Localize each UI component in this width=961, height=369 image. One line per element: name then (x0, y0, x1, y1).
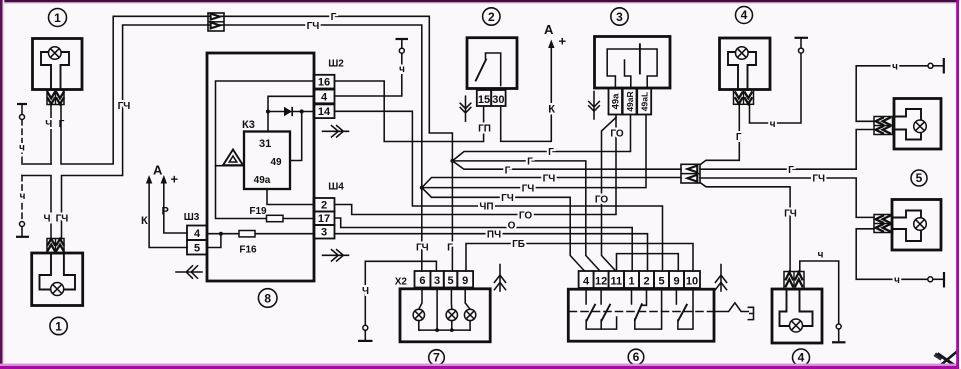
switch contact group right (676, 288, 693, 329)
svg-text:1: 1 (54, 11, 61, 25)
svg-text:Ч: Ч (45, 119, 52, 130)
svg-text:2: 2 (643, 276, 649, 288)
svg-text:Г: Г (736, 132, 742, 143)
wire Ch rear-left lamp to body point (856, 66, 928, 122)
switch contact group middle (632, 288, 662, 329)
svg-text:49а: 49а (611, 93, 622, 110)
circled 1 (bottom) (50, 317, 67, 334)
svg-text:Ч: Ч (362, 286, 369, 297)
svg-text:5: 5 (658, 276, 664, 288)
circled 5 (911, 170, 927, 186)
pin 30 (491, 90, 505, 106)
lamp 1 front-right turn signal (bottom) (32, 253, 83, 306)
terminal Ч near Sh2-4 (335, 39, 409, 96)
wire X2-6 feed (down from fork) (421, 188, 423, 271)
wire Sh3-4/5 through F16 to Sh4-3 (207, 234, 314, 248)
pin 49aR (623, 89, 637, 115)
node rail junctions (435, 328, 439, 332)
svg-text:17: 17 (318, 213, 330, 225)
cluster box 7 (400, 289, 490, 342)
svg-text:А: А (153, 163, 163, 178)
svg-text:ГЧ: ГЧ (56, 214, 69, 225)
terminal Ч (top right) (795, 38, 809, 53)
wire GCh middle branch to hazard switch 49aL (422, 115, 646, 188)
rear lamp 5 top (894, 99, 941, 150)
svg-text:ч: ч (892, 62, 898, 73)
body point terminal (top) (928, 58, 944, 74)
svg-text:2: 2 (321, 200, 327, 212)
svg-text:11: 11 (610, 276, 622, 288)
arrow out right (Sh2) (323, 126, 349, 137)
node fork GCh (420, 186, 424, 190)
svg-text:ч: ч (20, 191, 26, 202)
connector X of lamp 1 top (47, 90, 64, 105)
svg-text:Ч: Ч (43, 214, 50, 225)
ignition switch block 2 (467, 38, 517, 89)
svg-text:9: 9 (462, 275, 468, 287)
wire lamp1top Г up to line Г (61, 16, 452, 164)
wire K3-49a to Sh4-2 (267, 189, 314, 205)
svg-text:5: 5 (194, 242, 200, 254)
svg-text:49: 49 (270, 157, 282, 168)
body point terminal (lamp 4 bottom) (832, 324, 846, 342)
circled 4 (top) (736, 7, 753, 24)
wire G bottom branch to connector (452, 161, 681, 169)
switch block 6 box (568, 289, 714, 341)
switch contact group left (586, 288, 617, 329)
connector X of lamp 5 bottom (874, 215, 893, 233)
mounting block 8 (207, 53, 314, 281)
svg-text:ГП: ГП (478, 123, 491, 134)
svg-text:ч: ч (894, 275, 900, 286)
circled 4 (bottom) (793, 349, 810, 366)
ground terminal bottom-left (16, 176, 29, 237)
svg-text:Г: Г (505, 165, 511, 176)
ground terminal top-left (17, 104, 27, 164)
svg-text:4: 4 (194, 228, 201, 240)
cluster lamp common rail (419, 288, 470, 331)
pin 49a (609, 89, 623, 115)
svg-text:4: 4 (583, 276, 590, 288)
svg-text:ЧП: ЧП (479, 202, 493, 213)
svg-text:49аR: 49аR (625, 91, 635, 111)
wire Sh3-4 to P arrow (164, 183, 187, 233)
connector X of lamp 1 bottom (47, 239, 64, 254)
svg-text:Г: Г (788, 165, 794, 176)
svg-text:8: 8 (264, 291, 271, 305)
wire ground X2-3 (365, 261, 436, 325)
svg-text:Ш3: Ш3 (184, 212, 200, 223)
svg-text:А: А (544, 22, 554, 37)
node fork G (450, 159, 454, 163)
switch mechanical dashed link (570, 311, 714, 313)
cluster lamp right (464, 288, 475, 331)
svg-text:5: 5 (916, 171, 923, 185)
svg-text:Ш2: Ш2 (328, 59, 344, 70)
svg-text:4: 4 (741, 8, 748, 22)
svg-text:Г: Г (331, 12, 337, 23)
svg-text:К: К (141, 215, 148, 227)
arrow out right (Sh4) (323, 250, 349, 261)
wire GB from X2-9 to switch pin 10 (466, 244, 693, 272)
svg-text:ГЧ: ГЧ (784, 209, 797, 220)
wire Ch of lamp 4 top to terminal (750, 53, 802, 123)
cluster lamp middle (446, 288, 457, 331)
svg-text:3: 3 (321, 227, 327, 239)
wire Sh2-16 to F19 and Sh4-17 (216, 81, 314, 219)
svg-text:49аL: 49аL (639, 92, 649, 111)
wire GO from Sh4-2 to hazard switch 49a (335, 115, 617, 215)
svg-text:ГЧ: ГЧ (416, 242, 429, 253)
ground arrow below block 3 (589, 92, 600, 120)
ground arrow below block 2 (460, 96, 471, 121)
svg-text:Р: Р (162, 206, 169, 218)
wire GCh to side repeater lamp 4 bottom (700, 183, 790, 272)
node diode input (266, 109, 270, 113)
svg-text:ГЧ: ГЧ (118, 101, 131, 112)
svg-text:4: 4 (798, 351, 805, 365)
node F16 junction (219, 232, 223, 236)
svg-text:16: 16 (318, 77, 330, 89)
svg-text:ГЧ: ГЧ (543, 173, 556, 184)
svg-text:4: 4 (321, 91, 328, 103)
fuse F19 (249, 206, 283, 222)
arrow out left (bottom of block 8) (176, 266, 202, 278)
diode VD (284, 107, 292, 116)
wire Ch of lamp 4 bottom to body point (800, 261, 839, 324)
circled 8 (258, 289, 277, 308)
arrow to + (left group) (161, 172, 179, 218)
arrow to battery A (ignition) (544, 22, 567, 116)
arrow up (right of switch) (715, 265, 726, 292)
svg-text:К3: К3 (242, 119, 255, 131)
tools icon (934, 352, 958, 369)
connector Sh3 pins 4 5 (184, 212, 207, 255)
ground rail 1 with dashed body wire (22, 163, 51, 165)
wire GCh to rear right lamp 5 (700, 178, 874, 217)
svg-text:2: 2 (488, 10, 495, 24)
svg-text:ч: ч (818, 249, 824, 260)
wire bridge pin 11 to pin 9 (617, 254, 679, 271)
wire PCh from Sh4-3 to switch pin 2 (335, 234, 648, 271)
hazard switch block 3 (595, 37, 671, 89)
svg-text:О: О (508, 220, 516, 231)
connector X of lamp 4 top (734, 90, 754, 104)
arrow to battery A (left group) (141, 163, 163, 228)
svg-text:3: 3 (616, 10, 623, 24)
svg-text:ГО: ГО (595, 195, 609, 206)
wire to steering link (squiggle) (716, 303, 754, 320)
circled 3 (611, 8, 628, 25)
svg-text:49а: 49а (254, 175, 271, 186)
ground rail 2 to bottom lamp Ч (22, 176, 51, 239)
circled 1 (top) (49, 9, 67, 27)
circled 6 (628, 349, 644, 365)
wire lamp1bottom ГЧ up to line ГЧ and down to fork (62, 25, 422, 239)
svg-text:ГЧ: ГЧ (307, 21, 320, 32)
wire lamp1 Ч to ground rail (50, 105, 52, 165)
svg-text:К: К (548, 104, 555, 116)
svg-text:5: 5 (447, 275, 453, 287)
svg-text:ГБ: ГБ (512, 239, 525, 250)
svg-text:Ш4: Ш4 (328, 182, 344, 193)
wire ignition 30 to battery arrow A (501, 48, 552, 142)
rear lamp 5 bottom (892, 200, 941, 251)
wire GCh top branch to connector (422, 178, 681, 188)
wire diode node to K3-49 (290, 112, 302, 161)
svg-text:1: 1 (628, 276, 634, 288)
wire diode branch (268, 111, 314, 113)
svg-text:+: + (559, 34, 567, 49)
svg-text:ч: ч (399, 64, 405, 75)
svg-text:F19: F19 (249, 206, 267, 217)
body point terminal (bottom) (928, 272, 944, 288)
svg-text:ГО: ГО (519, 210, 533, 221)
svg-text:+: + (171, 172, 179, 187)
svg-text:3: 3 (434, 275, 440, 287)
svg-text:9: 9 (673, 276, 679, 288)
svg-text:7: 7 (433, 351, 440, 365)
wire Sh3-5 to K arrow (149, 183, 187, 248)
svg-text:14: 14 (318, 106, 331, 118)
side repeater lamp 4 top (720, 38, 771, 90)
wire O from Sh4-17 to switch pin 1 (335, 218, 633, 271)
svg-text:X2: X2 (395, 277, 408, 288)
hazard warning triangle (223, 150, 243, 166)
connector X of lamp 5 top (874, 117, 893, 135)
wire K3-31 to Sh2-4 (268, 96, 314, 131)
turn signal switch block 6 pins (579, 271, 700, 288)
svg-text:15: 15 (478, 94, 490, 106)
wire Ch rear-right lamp to body point (856, 229, 928, 279)
svg-text:Г: Г (527, 156, 533, 167)
svg-text:31: 31 (259, 138, 271, 150)
svg-text:ГЧ: ГЧ (522, 183, 535, 194)
connector pair (mid right) (681, 164, 700, 183)
svg-text:6: 6 (633, 350, 640, 364)
wire GCh bottom branch to switch pin 4 (422, 188, 585, 271)
svg-text:ПЧ: ПЧ (487, 229, 501, 240)
svg-text:6: 6 (419, 275, 425, 287)
wire G middle branch to switch pin 12 (452, 161, 599, 271)
fuse F16 (239, 231, 257, 256)
wire Sh2-16 to ignition 15 (GP) (335, 81, 484, 142)
node diode output (300, 109, 304, 113)
wire G top branch to hazard switch 49aR (452, 115, 630, 161)
svg-text:10: 10 (686, 276, 698, 288)
svg-text:ч: ч (770, 119, 776, 130)
svg-text:ГЧ: ГЧ (501, 193, 514, 204)
circled 2 (483, 8, 500, 25)
wire Sh2-14 to ChP to panel pin 5 (335, 111, 663, 271)
lamp 1 front-left turn signal (33, 39, 83, 90)
circled 7 (429, 350, 445, 366)
svg-text:Г: Г (548, 147, 554, 158)
wire G to side repeater lamp 4 top (700, 104, 739, 165)
connector X of lamp 4 bottom (784, 272, 804, 289)
pin 49aL (637, 89, 651, 115)
svg-text:F16: F16 (239, 245, 257, 256)
svg-text:Г: Г (447, 243, 453, 254)
side repeater lamp 4 bottom (772, 289, 822, 343)
cluster lamp left (413, 288, 424, 331)
svg-text:ГО: ГО (610, 128, 624, 139)
relay K3 (242, 119, 290, 189)
instrument cluster block 7 (395, 271, 473, 288)
arrow up (left of cluster) (494, 265, 505, 292)
svg-text:ч: ч (19, 143, 25, 154)
svg-text:30: 30 (492, 94, 504, 106)
wire 49a branch to switch pin 11 (602, 118, 617, 271)
pin 15 (477, 90, 491, 106)
wire G to rear left lamp 5 (700, 130, 874, 170)
svg-text:12: 12 (595, 276, 607, 288)
connector top-left pair (208, 13, 224, 31)
fork of net G (feeds X2-5) (451, 161, 453, 271)
ground terminal (cluster) (358, 325, 373, 341)
connector Sh4 pins 2 17 3 (314, 182, 345, 239)
svg-text:ГЧ: ГЧ (812, 174, 825, 185)
svg-text:1: 1 (55, 319, 62, 333)
wire hazard indicator to K3-49 (216, 165, 245, 167)
connector Sh2 pins 16 4 14 (314, 59, 345, 119)
